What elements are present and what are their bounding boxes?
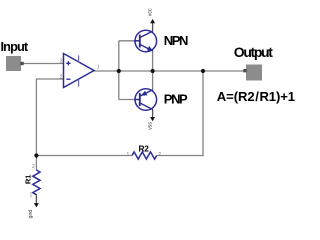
wire node to R1 top [35,156,37,171]
svg-text:R1: R1 [23,174,32,184]
junction node output / feedback [201,69,205,73]
resistor R1 zigzag [33,170,40,195]
VSS supply arrow [150,117,155,121]
NPN base bar [139,35,141,48]
svg-text:3: 3 [60,58,63,64]
Output pad [246,65,262,81]
svg-text:vcc: vcc [147,8,153,16]
wire feedback bottom left of R2 [36,155,132,157]
Output pad pin mark [243,69,246,72]
junction node at op-amp output / bases [117,69,121,73]
wire bases vertical [118,41,120,100]
wire feedback bottom right of R2 [157,155,204,157]
PNP base bar [139,93,141,106]
svg-text:Input: Input [1,39,29,54]
svg-text:A=(R2/R1)+1: A=(R2/R1)+1 [217,89,295,104]
PNP collector diagonal [140,103,153,110]
op-amp U1 triangle [64,54,95,88]
svg-text:2: 2 [32,164,35,170]
wire NPN collector to VCC [152,23,154,31]
svg-text:2: 2 [60,74,63,80]
op-amp V+ power stub [78,55,80,62]
svg-text:R2: R2 [139,144,150,154]
resistor R2 zigzag [132,152,157,159]
transistor Q1 NPN circle [135,30,157,52]
PNP emitter diagonal [140,90,153,97]
wire op-amp minus feedback horizontal [36,78,63,80]
svg-text:Output: Output [234,44,273,60]
wire minus down to feedback node [35,78,37,155]
Input pad [6,56,21,71]
wire op-amp output main horizontal [94,70,246,72]
svg-text:2: 2 [158,152,161,158]
NPN base stub [134,40,140,42]
op-amp V- power stub [78,79,80,86]
ground arrow [34,203,39,207]
svg-text:gnd: gnd [28,210,34,219]
junction node feedback / R1 [34,153,38,157]
PNP base stub [134,99,140,101]
svg-text:NPN: NPN [164,33,188,48]
wire input to op-amp [21,63,64,65]
NPN collector diagonal [140,31,153,38]
wire feedback vertical right [202,71,204,156]
svg-text:vss: vss [148,122,154,130]
wire node to PNP emitter [152,71,154,90]
op-amp plus sign [66,61,70,65]
op-amp minus sign [66,78,70,80]
wire R1 bottom to gnd [35,194,37,204]
svg-text:PNP: PNP [164,92,188,107]
Input pad pin mark [20,62,23,65]
NPN emitter arrow [147,46,153,51]
transistor Q2 PNP circle [135,89,157,111]
wire PNP base horizontal [119,99,140,101]
svg-text:1: 1 [127,152,130,158]
wire NPN base horizontal [119,40,140,42]
svg-text:1: 1 [97,64,100,70]
NPN emitter diagonal [140,44,153,51]
wire NPN emitter to node [152,51,154,71]
wire PNP collector to VSS [152,110,154,118]
junction node emitters / output wire [151,69,155,73]
PNP emitter arrow [141,91,148,96]
VCC supply arrow [150,19,155,23]
svg-text:1: 1 [30,193,33,199]
